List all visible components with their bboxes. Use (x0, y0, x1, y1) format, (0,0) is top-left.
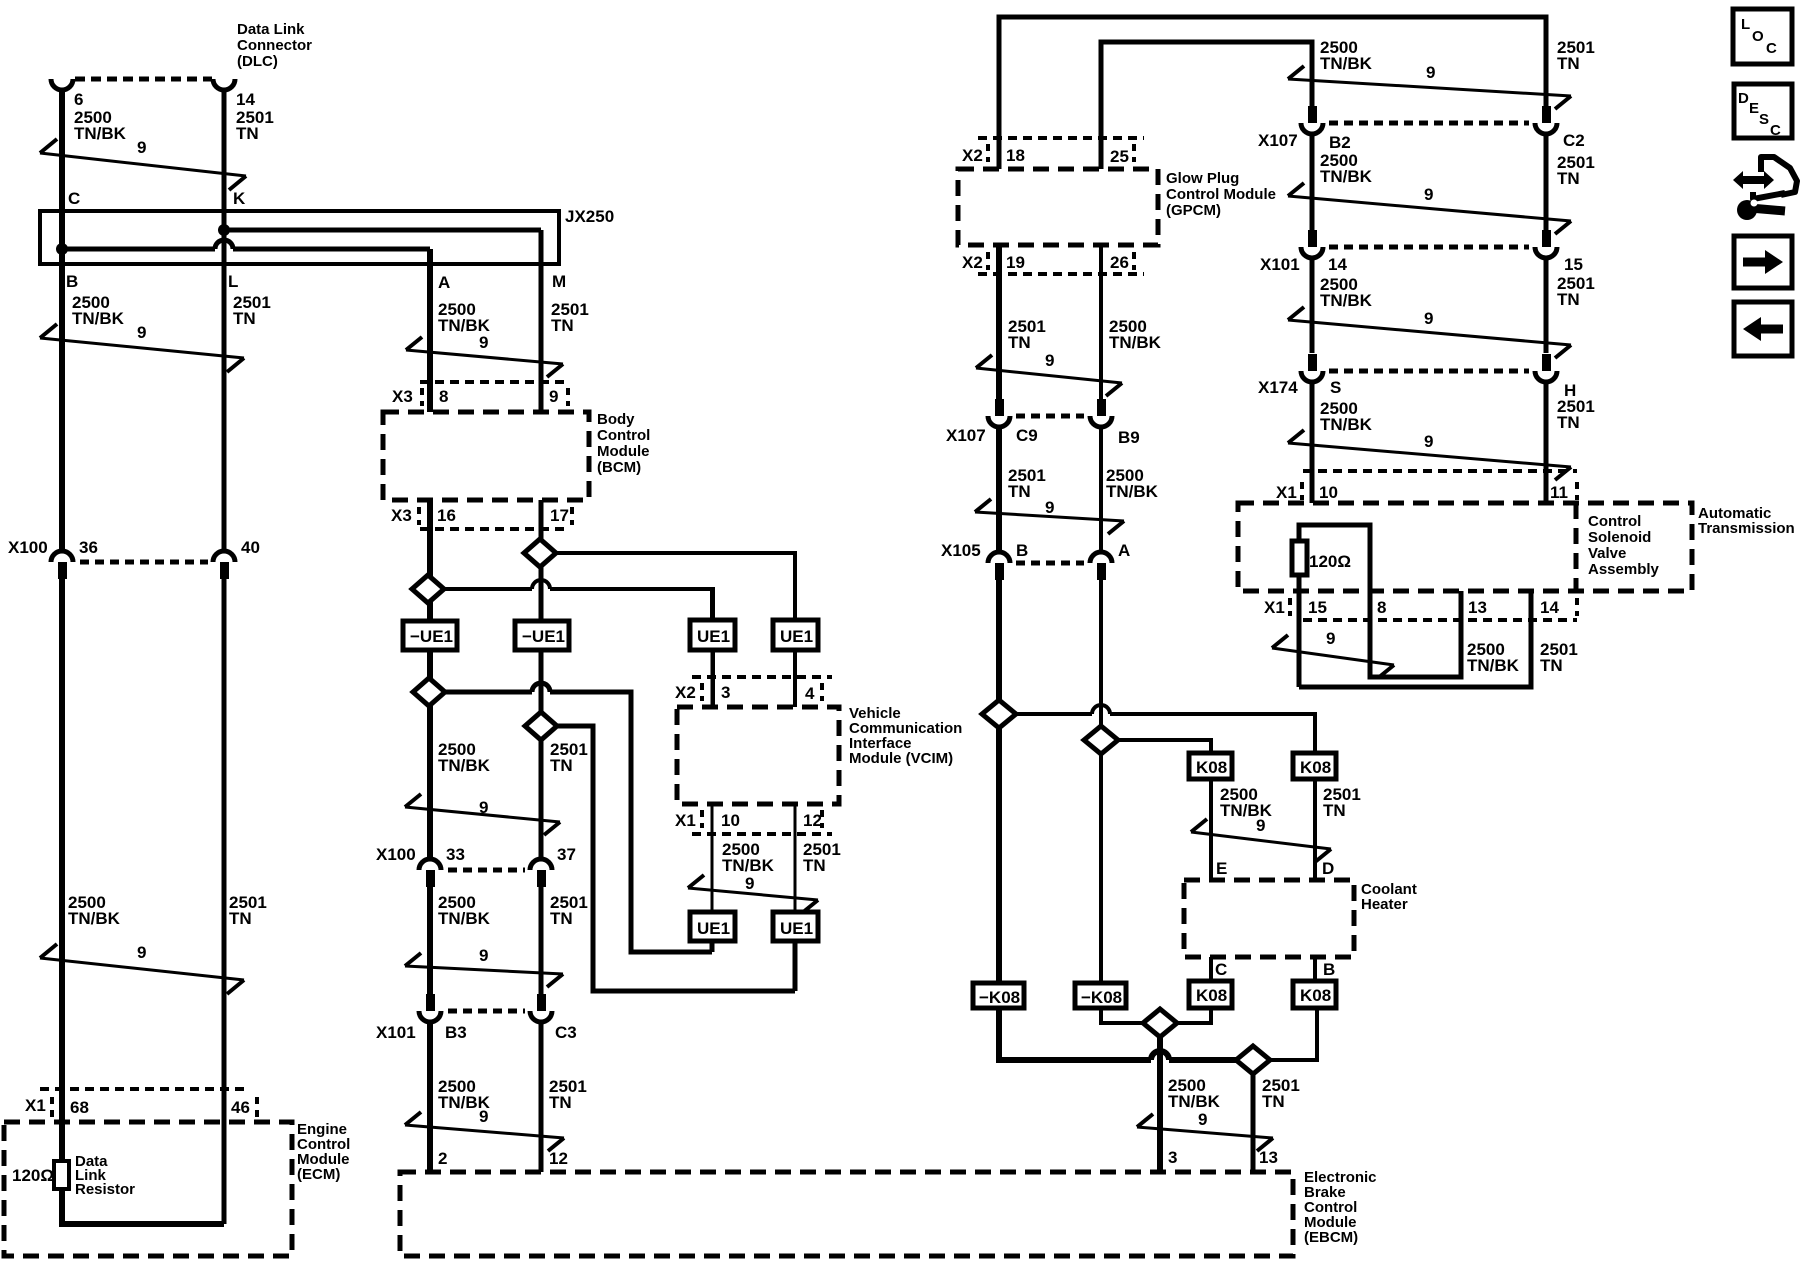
svg-text:12: 12 (803, 811, 822, 830)
wire X1-15 to X1-14 loop (1299, 591, 1531, 687)
connector X107 pin B9 (1090, 399, 1140, 447)
wire 2501 TN from X107 C9 to X105 B (996, 427, 1002, 552)
svg-text:9: 9 (479, 946, 488, 965)
svg-text:13: 13 (1259, 1148, 1278, 1167)
svg-text:10: 10 (721, 811, 740, 830)
svg-text:9: 9 (1424, 309, 1433, 328)
connector X107 pin B2 (1301, 106, 1351, 152)
twisted pair label K08 upper left (1189, 753, 1232, 779)
svg-text:E: E (1749, 100, 1759, 117)
svg-text:Assembly: Assembly (1588, 561, 1660, 578)
svg-text:TN: TN (229, 909, 252, 928)
svg-text:6: 6 (74, 90, 83, 109)
svg-text:L: L (228, 272, 238, 291)
module VCIM box (677, 705, 962, 804)
wire gauge arrow 9 (405, 946, 563, 987)
svg-text:40: 40 (241, 538, 260, 557)
svg-text:18: 18 (1006, 146, 1025, 165)
connector X1 strip top of CSVA (1276, 471, 1577, 502)
svg-text:16: 16 (437, 506, 456, 525)
junction dot on K wire (218, 224, 230, 236)
splice diamond 2500 to EBCM (1143, 1009, 1177, 1037)
svg-text:UE1: UE1 (780, 627, 813, 646)
svg-text:9: 9 (1256, 816, 1265, 835)
svg-text:(GPCM): (GPCM) (1166, 202, 1221, 219)
svg-text:B: B (66, 272, 78, 291)
wire hop over 2500 wire (1151, 1051, 1169, 1060)
svg-text:9: 9 (479, 1107, 488, 1126)
twisted pair label UE1 lower left (690, 912, 735, 941)
wire 2500 TN/BK from JX250 B down to ECM (59, 249, 65, 1161)
wire 2501 TN splice to EBCM pin 13 (1251, 1074, 1256, 1172)
svg-text:X1: X1 (675, 811, 696, 830)
wire label 2500 TN/BK (1106, 466, 1159, 501)
wire label 2501 TN (1008, 466, 1046, 501)
svg-text:X1: X1 (1264, 598, 1285, 617)
svg-text:Module (VCIM): Module (VCIM) (849, 750, 953, 767)
svg-text:15: 15 (1564, 255, 1583, 274)
module EBCM box (400, 1169, 1377, 1256)
svg-text:TN/BK: TN/BK (1168, 1092, 1221, 1111)
wire label 2500 TN/BK (1320, 399, 1373, 434)
svg-text:9: 9 (1426, 63, 1435, 82)
wire label 2501 TN (1008, 317, 1046, 352)
svg-text:(ECM): (ECM) (297, 1166, 340, 1183)
svg-text:(BCM): (BCM) (597, 459, 641, 476)
wire label 2500 TN/BK (438, 893, 491, 928)
svg-text:Control: Control (597, 427, 650, 444)
connector X107 pin C9 (988, 399, 1038, 445)
wire label 2501 TN (550, 740, 588, 775)
svg-text:X2: X2 (962, 253, 983, 272)
connector X100 dashed line (448, 868, 525, 873)
connector X101 pin 15 (1535, 230, 1583, 274)
wire label 2501 TN (1323, 785, 1361, 820)
svg-text:X1: X1 (25, 1096, 46, 1115)
wire 2501 TN rail from GPCM X2-18 to C2 chain (999, 17, 1546, 169)
resistor data link resistor 120 ohm (12, 1153, 135, 1198)
svg-text:TN: TN (549, 1093, 572, 1112)
wire gauge arrow 9 (976, 351, 1122, 396)
svg-text:X3: X3 (391, 506, 412, 525)
svg-text:120Ω: 120Ω (12, 1166, 54, 1185)
svg-text:Transmission: Transmission (1698, 520, 1795, 537)
svg-text:9: 9 (1045, 351, 1054, 370)
svg-text:D: D (1322, 859, 1334, 878)
svg-text:A: A (438, 273, 450, 292)
icon LOC box (1733, 9, 1792, 64)
svg-text:15: 15 (1308, 598, 1327, 617)
wire 2501 TN from GPCM X2-19 to X107 C9 (996, 245, 1002, 399)
wire 2500 TN/BK rail from GPCM X2-25 to B2 chain (1101, 42, 1312, 169)
svg-text:TN: TN (1262, 1092, 1285, 1111)
svg-text:(DLC): (DLC) (237, 53, 278, 70)
wire branch to VCIM X2-3 (444, 589, 713, 707)
wire VCIM X1-12 to UE1 (794, 804, 797, 912)
svg-text:17: 17 (550, 506, 569, 525)
wire gauge arrow 9 (688, 874, 818, 913)
junction block JX250 (40, 207, 614, 264)
wire gauge arrow 9 (405, 1107, 564, 1151)
svg-text:TN/BK: TN/BK (1320, 291, 1373, 310)
wire label 2501 TN (549, 1077, 587, 1112)
wire label 2500 TN/BK (438, 1077, 491, 1112)
wire resistor bottom loop to pin 46 (62, 1189, 224, 1224)
svg-text:Control Module: Control Module (1166, 186, 1276, 203)
svg-text:X1: X1 (1276, 483, 1297, 502)
icon harness view with double arrow and wrench (1733, 157, 1797, 220)
wire label 2500 TN/BK (438, 740, 491, 775)
connector X101 right dashed line (1329, 245, 1529, 250)
wire gauge arrow 9 (1288, 307, 1571, 358)
svg-text:TN: TN (233, 309, 256, 328)
svg-text:Data Link: Data Link (237, 21, 305, 38)
svg-text:K08: K08 (1196, 986, 1227, 1005)
svg-text:UE1: UE1 (780, 919, 813, 938)
svg-text:X174: X174 (1258, 378, 1298, 397)
svg-text:Module: Module (597, 443, 650, 460)
svg-text:M: M (552, 272, 566, 291)
wire 2500 TN/BK from X101 14 to X174 S (1310, 258, 1315, 353)
svg-text:33: 33 (446, 845, 465, 864)
wire gauge arrow 9 (975, 498, 1124, 534)
wire coolant heater C to K08 (1209, 957, 1213, 981)
svg-text:TN: TN (1557, 169, 1580, 188)
wire label 2500 TN/BK (1109, 317, 1162, 352)
data link connector (DLC) label (237, 21, 312, 70)
svg-text:14: 14 (236, 90, 255, 109)
twisted pair label -K08 right (1075, 983, 1126, 1008)
svg-text:TN: TN (551, 316, 574, 335)
wire 2500 TN/BK from DLC pin 6 to JX250 (59, 90, 65, 249)
svg-text:B9: B9 (1118, 428, 1140, 447)
wire label 2500 TN/BK (1320, 275, 1373, 310)
connector X1 strip on ECM (25, 1089, 257, 1117)
connector X174 pin S (1301, 354, 1341, 397)
svg-text:68: 68 (70, 1098, 89, 1117)
connector X3 strip top of BCM (392, 382, 570, 406)
svg-text:A: A (1118, 541, 1130, 560)
wire 2500 TN/BK from GPCM X2-26 to X107 B9 (1099, 245, 1103, 399)
wire label 2500 TN/BK (72, 293, 125, 328)
svg-text:UE1: UE1 (697, 919, 730, 938)
svg-text:10: 10 (1319, 483, 1338, 502)
wire 2501 TN from X101 15 to X174 H (1544, 258, 1549, 353)
svg-text:Glow Plug: Glow Plug (1166, 170, 1239, 187)
wire label 2501 TN (1540, 640, 1578, 675)
splice diamond on wire 2500 below -UE1 (413, 678, 445, 706)
wire label 2500 TN/BK (1320, 151, 1373, 186)
connector X101 pin 14 (1301, 230, 1347, 274)
svg-text:TN/BK: TN/BK (74, 124, 127, 143)
connector X107 pin C2 (1535, 106, 1585, 150)
svg-text:C: C (1215, 960, 1227, 979)
connector X101 dashed line (448, 1009, 525, 1014)
svg-text:11: 11 (1550, 483, 1568, 502)
svg-text:E: E (1216, 859, 1227, 878)
wire internal loop top of CSVA (1299, 525, 1370, 591)
svg-text:9: 9 (1198, 1110, 1207, 1129)
svg-text:TN: TN (1557, 290, 1580, 309)
connector X174 dashed line (1329, 369, 1529, 374)
svg-text:9: 9 (745, 874, 754, 893)
wire K08 B to splice (1270, 1008, 1317, 1060)
wire branch to K08 D (1016, 714, 1315, 753)
svg-text:9: 9 (137, 138, 146, 157)
svg-text:C: C (1766, 40, 1777, 57)
wire 2501 TN through -K08 (996, 728, 1002, 983)
svg-text:8: 8 (439, 387, 448, 406)
wire K08 to splice (1177, 1008, 1211, 1023)
wire 2501 TN from DLC pin 14 to JX250 (222, 90, 227, 230)
splice diamond on wire 2501 below -UE1 (525, 712, 557, 740)
connector X105 dashed line (1016, 561, 1084, 566)
svg-text:X100: X100 (376, 845, 416, 864)
svg-text:X101: X101 (1260, 255, 1300, 274)
wire label 2501 TN (551, 300, 589, 335)
connector X107 left dashed line (1016, 414, 1084, 419)
wire 2500 TN/BK from JX250 A to BCM X3-8 (427, 249, 433, 412)
svg-text:4: 4 (805, 684, 815, 703)
twisted pair label K08 lower left (1189, 981, 1232, 1008)
wire gauge arrow 9 (1137, 1110, 1273, 1151)
svg-text:19: 19 (1006, 253, 1025, 272)
svg-text:TN: TN (1323, 801, 1346, 820)
svg-text:−UE1: −UE1 (522, 627, 565, 646)
twisted pair label -K08 left (973, 983, 1024, 1008)
svg-text:TN: TN (1557, 54, 1580, 73)
module BCM box (383, 411, 650, 500)
connector X2 strip top of GPCM (962, 138, 1144, 166)
wire gauge arrow 9 (406, 333, 563, 377)
connector X3 strip bottom of BCM (391, 506, 572, 529)
wire VCIM pin 4 to UE1 (793, 553, 797, 620)
connector X107 right dashed line (1329, 121, 1529, 126)
wire label 2501 TN (236, 108, 274, 143)
wire 2501 TN from BCM X3-17 down to EBCM pin 12 (539, 500, 544, 1172)
wire gauge arrow 9 (40, 943, 244, 994)
wire UE1 lower right stub (793, 941, 798, 991)
wire label 2500 TN/BK (1220, 785, 1273, 820)
svg-text:9: 9 (1326, 629, 1335, 648)
wire 2500 TN/BK splice to EBCM pin 3 (1157, 1037, 1163, 1172)
svg-text:TN: TN (550, 756, 573, 775)
wire 2501 TN from X174 H to CSVA X1-11 (1544, 382, 1549, 503)
svg-text:JX250: JX250 (565, 207, 614, 226)
svg-text:9: 9 (479, 798, 488, 817)
splice diamond 2501 to EBCM (1236, 1046, 1270, 1074)
svg-text:Valve: Valve (1588, 545, 1626, 562)
module control solenoid valve assembly label box (1576, 503, 1660, 591)
svg-text:X105: X105 (941, 541, 981, 560)
wire 2501 TN from JX250 L down to ECM (222, 230, 227, 1224)
module automatic transmission box (1238, 503, 1795, 591)
wire 2501 TN from X107 C2 to X101 15 (1544, 134, 1549, 230)
wire VCIM pin 3 to UE1 (710, 589, 714, 620)
svg-text:Connector: Connector (237, 37, 312, 54)
connector X105 pin B (988, 541, 1028, 580)
svg-text:TN/BK: TN/BK (438, 756, 491, 775)
svg-text:C9: C9 (1016, 426, 1038, 445)
wire gauge arrow 9 (40, 138, 246, 190)
twisted pair label UE1 lower right (773, 912, 818, 941)
svg-text:X107: X107 (1258, 131, 1298, 150)
svg-text:K08: K08 (1300, 986, 1331, 1005)
wire label 2500 TN/BK (722, 840, 775, 875)
svg-text:TN/BK: TN/BK (72, 309, 125, 328)
twisted pair label K08 upper right (1293, 753, 1336, 779)
svg-text:X2: X2 (675, 683, 696, 702)
connector X100 pin 40 (213, 538, 260, 579)
svg-text:B: B (1323, 960, 1335, 979)
svg-text:Control: Control (1588, 513, 1641, 530)
wire 2500 TN/BK jumper inside JX250 (62, 247, 430, 252)
svg-text:K08: K08 (1300, 758, 1331, 777)
wire UE1 to VCIM X2-3 (711, 650, 714, 707)
wire VCIM X1-10 to UE1 (711, 804, 714, 912)
svg-text:TN: TN (236, 124, 259, 143)
splice diamond on 2501 TN wire (982, 700, 1016, 728)
svg-text:TN: TN (1008, 333, 1031, 352)
wire 2501 TN from JX250 M to BCM X3-9 (539, 230, 544, 412)
svg-text:TN/BK: TN/BK (1320, 415, 1373, 434)
svg-text:TN: TN (1557, 413, 1580, 432)
svg-text:9: 9 (1424, 432, 1433, 451)
svg-text:9: 9 (137, 943, 146, 962)
svg-text:UE1: UE1 (697, 627, 730, 646)
svg-text:(EBCM): (EBCM) (1304, 1229, 1358, 1246)
svg-text:TN: TN (550, 909, 573, 928)
wire gauge arrow 9 (1272, 629, 1394, 678)
svg-text:9: 9 (549, 387, 558, 406)
wire resistor to X1-15 (1297, 575, 1302, 687)
wire label 2500 TN/BK (438, 300, 491, 335)
wire hop over wire 17 (532, 580, 550, 589)
svg-text:9: 9 (479, 333, 488, 352)
svg-text:−UE1: −UE1 (410, 627, 453, 646)
connector X101 pin C3 (530, 994, 577, 1042)
wire label 2501 TN (550, 893, 588, 928)
svg-text:36: 36 (79, 538, 98, 557)
svg-text:TN/BK: TN/BK (1106, 482, 1159, 501)
svg-text:K08: K08 (1196, 758, 1227, 777)
wire label 2501 TN (229, 893, 267, 928)
wire coolant heater B to K08 (1313, 957, 1317, 981)
twisted pair label -UE1 right (515, 621, 569, 650)
svg-text:X2: X2 (962, 146, 983, 165)
svg-text:X100: X100 (8, 538, 48, 557)
svg-text:X101: X101 (376, 1023, 416, 1042)
icon DESC box (1734, 84, 1792, 139)
svg-text:C2: C2 (1563, 131, 1585, 150)
svg-text:Body: Body (597, 411, 635, 428)
wire 2500 TN/BK from BCM X3-16 down to EBCM pin 2 (427, 500, 433, 1172)
connector X100 pin 36 (51, 538, 98, 579)
wire gauge arrow 9 (1288, 183, 1571, 234)
wire gauge arrow 9 (1288, 430, 1571, 480)
wire hop over wire 2501 (532, 683, 550, 692)
wire label 2501 TN (1557, 38, 1595, 73)
svg-text:26: 26 (1110, 253, 1129, 272)
wire branch to VCIM X2-4 (556, 553, 795, 707)
svg-text:2: 2 (438, 1149, 447, 1168)
connector X1 strip bottom of VCIM (675, 810, 832, 834)
svg-text:C3: C3 (555, 1023, 577, 1042)
svg-text:TN: TN (1008, 482, 1031, 501)
svg-text:S: S (1759, 111, 1769, 128)
wire label 2500 TN/BK (1320, 38, 1373, 73)
wire 2501 TN to splice (999, 1008, 1236, 1060)
connector X100 pin 33 (419, 845, 465, 887)
svg-text:25: 25 (1110, 147, 1129, 166)
svg-text:120Ω: 120Ω (1309, 552, 1351, 571)
connector DLC dashed line (75, 77, 212, 82)
wire K08 to coolant heater D (1313, 779, 1317, 880)
wire UE1 lower left stub (710, 941, 715, 952)
wire gauge arrow 9 (405, 794, 560, 835)
svg-text:Resistor: Resistor (75, 1181, 135, 1198)
wire UE1 to VCIM X2-4 (794, 650, 797, 707)
wire 2500 TN/BK from X174 S to CSVA X1-10 (1310, 382, 1315, 503)
wire gauge arrow 9 (40, 323, 244, 372)
wire 2501 TN from X105 B to splice (996, 580, 1002, 700)
twisted pair label K08 lower right (1293, 981, 1336, 1008)
wire 2500 TN/BK from X107 B2 to X101 14 (1310, 134, 1315, 230)
svg-text:B2: B2 (1329, 133, 1351, 152)
icon back arrow box (1734, 302, 1792, 356)
wire 2500 TN/BK from X107 B9 to X105 A (1099, 427, 1103, 552)
twisted pair label -UE1 left (403, 621, 457, 650)
svg-text:B: B (1016, 541, 1028, 560)
svg-text:TN/BK: TN/BK (1109, 333, 1162, 352)
splice diamond on 2500 TN/BK wire (1084, 726, 1118, 754)
wire label 2500 TN/BK (1168, 1076, 1221, 1111)
svg-text:B3: B3 (445, 1023, 467, 1042)
wire label 2500 TN/BK (74, 108, 127, 143)
wire gauge arrow 9 (1191, 816, 1331, 862)
wire branch to K08 E (1118, 740, 1211, 753)
splice diamond on wire 17 (524, 539, 556, 567)
svg-text:Heater: Heater (1361, 896, 1408, 913)
svg-text:46: 46 (231, 1098, 250, 1117)
svg-text:9: 9 (1424, 185, 1433, 204)
junction dot on B wire (56, 243, 68, 255)
wire label 2501 TN (1262, 1076, 1300, 1111)
connector X174 pin H (1535, 354, 1576, 400)
svg-text:S: S (1330, 378, 1341, 397)
svg-text:12: 12 (549, 1149, 568, 1168)
wire label 2501 TN (1557, 274, 1595, 309)
wire branch to UE1 12 (557, 726, 795, 991)
wire hop over 2500 wire (1092, 705, 1110, 714)
connector X100 dashed line (80, 560, 208, 565)
svg-text:TN/BK: TN/BK (1467, 656, 1520, 675)
svg-text:O: O (1752, 28, 1764, 45)
twisted pair label UE1 upper right (773, 620, 818, 650)
svg-text:−K08: −K08 (1081, 988, 1122, 1007)
svg-text:X107: X107 (946, 426, 986, 445)
svg-text:TN/BK: TN/BK (68, 909, 121, 928)
wire K08 to coolant heater E (1209, 779, 1213, 880)
svg-text:L: L (1741, 16, 1750, 33)
wire label 2500 TN/BK (1467, 640, 1520, 675)
svg-text:13: 13 (1468, 598, 1487, 617)
svg-text:−K08: −K08 (979, 988, 1020, 1007)
svg-text:X3: X3 (392, 387, 413, 406)
svg-text:9: 9 (1045, 498, 1054, 517)
svg-text:3: 3 (1168, 1148, 1177, 1167)
connector X105 pin A (1090, 541, 1130, 580)
